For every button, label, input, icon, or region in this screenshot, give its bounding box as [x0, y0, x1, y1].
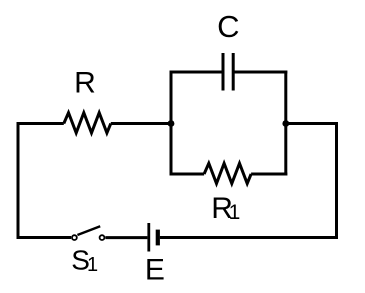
svg-text:1: 1	[87, 254, 98, 276]
node A junction dot	[168, 120, 175, 127]
wire: inner loop left vertical	[170, 71, 173, 176]
wire: bottom branch right of resistor R1	[251, 173, 287, 176]
svg-text:1: 1	[229, 201, 241, 224]
wire: top branch right of capacitor	[233, 71, 287, 74]
svg-text:E: E	[145, 253, 165, 286]
wire: bottom branch left of resistor R1	[170, 173, 205, 176]
wire: resistor R to node A	[111, 122, 171, 125]
switch S1 right contact circle	[100, 235, 105, 240]
switch S1 lever	[77, 226, 100, 235]
capacitor C	[223, 53, 233, 91]
switch S1 left contact circle	[72, 235, 77, 240]
node B junction dot	[282, 120, 289, 127]
resistor R	[64, 113, 111, 133]
battery E short plate	[156, 230, 160, 246]
wire: inner loop right vertical	[284, 71, 287, 176]
svg-text:R: R	[74, 67, 96, 100]
battery E long plate	[147, 223, 150, 252]
wire: top-left horizontal to resistor R	[17, 122, 64, 125]
svg-text:C: C	[217, 9, 239, 44]
wire: outer left side and bottom-left to switch	[18, 124, 71, 238]
wire: battery to switch segment	[105, 236, 147, 239]
wire: top branch left of capacitor	[170, 71, 224, 74]
wire: node B to outer right side and down to bottom-right corner	[160, 122, 338, 238]
resistor R1	[204, 163, 251, 183]
